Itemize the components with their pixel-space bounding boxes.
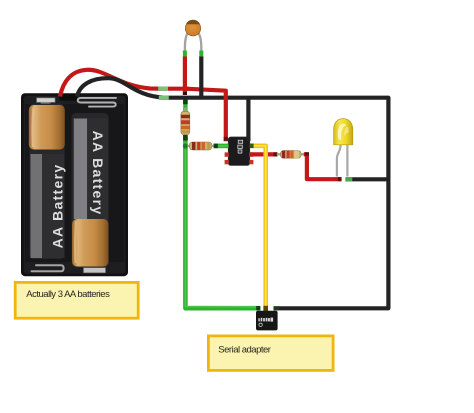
LED D1 highlight <box>338 124 347 140</box>
node dark cap red at LED <box>338 177 342 181</box>
wire black from LED to right rail <box>346 177 388 181</box>
transistor U1 markings <box>238 140 243 153</box>
wire yellow from transistor to serial adapter <box>250 146 266 311</box>
LED D1 right leg <box>346 145 348 177</box>
battery holder spring bottom left <box>32 265 64 271</box>
resistor R2 horizontal left lead <box>188 145 190 147</box>
wire red elbow to LED <box>304 154 342 179</box>
node dark cap red right <box>274 152 278 156</box>
node dark cap red leg end <box>183 91 187 95</box>
svg-text:Actually 3 AA batteries: Actually 3 AA batteries <box>26 289 110 300</box>
serial adapter U2 label <box>258 318 273 322</box>
transistor U1 pin right upper <box>249 152 253 156</box>
transistor U1 pin left lower <box>225 160 229 164</box>
node dark cap red wire at transistor <box>224 137 228 141</box>
battery B2 (right, + down) <box>72 113 109 268</box>
wire green segment to transistor <box>214 144 229 149</box>
resistor R3 right lead <box>301 153 305 155</box>
wire green long vertical and bottom <box>185 136 259 309</box>
note N1 "Actually 3 AA batteries" <box>15 282 138 318</box>
transistor U1 body <box>228 137 249 165</box>
wire black battery curve <box>77 78 164 98</box>
wire red horizontal segment A <box>159 87 189 91</box>
serial adapter U2 body <box>256 311 278 331</box>
serial adapter U2 symbol <box>259 323 262 326</box>
svg-text:AA Battery: AA Battery <box>50 164 66 249</box>
resistor R3 body <box>281 151 302 159</box>
battery holder BT1 box <box>21 93 128 276</box>
wire red from transistor to resistor R3 <box>250 152 277 156</box>
transistor U1 pin left upper <box>225 152 229 156</box>
battery holder contact plate bottom right <box>88 263 97 268</box>
battery B1 (left, + up) <box>29 104 66 260</box>
battery holder contact plate top left <box>37 98 55 102</box>
wire red phototransistor left leg <box>183 57 187 92</box>
node dark cap green top <box>183 135 188 141</box>
node green tip right leg <box>199 51 203 58</box>
node dark cap green at serial adapter <box>256 306 260 310</box>
node dark cap green segment left <box>214 144 218 149</box>
phototransistor Q2 left leg <box>185 33 188 53</box>
node dark cap yellow left <box>250 144 254 149</box>
phototransistor Q2 dome <box>185 21 200 36</box>
resistor R2 right lead <box>212 145 215 147</box>
node dark green tint black wire end <box>274 306 279 310</box>
svg-text:Serial adapter: Serial adapter <box>218 344 270 355</box>
node green junction blob <box>183 143 188 148</box>
svg-text:AA Battery: AA Battery <box>90 131 106 216</box>
note N2 "Serial adapter" <box>208 336 333 371</box>
LED D1 body <box>334 119 353 145</box>
resistor R2 body <box>189 142 211 150</box>
wire red battery curve <box>60 70 161 97</box>
wire green stub above resistor R1 <box>183 99 187 112</box>
node green cap on black wire <box>159 96 169 100</box>
transistor U1 pin right lower <box>249 160 253 164</box>
node green cap on red wire <box>158 87 168 91</box>
battery holder spring top right <box>78 98 116 107</box>
phototransistor Q2 right leg <box>198 33 201 53</box>
wire black phototransistor right leg <box>199 57 203 100</box>
node green cap black LED wire <box>345 177 352 181</box>
wire red segment B to transistor <box>186 89 226 141</box>
resistor R3 left lead <box>277 153 281 155</box>
LED D1 left leg <box>337 145 341 177</box>
wire black vertical to transistor <box>246 98 250 141</box>
node green tip left leg <box>183 51 187 58</box>
node dark cap green stub <box>183 99 188 104</box>
node dark cap red elbow top <box>305 152 309 155</box>
resistor R1 vertical body <box>181 108 190 139</box>
battery holder wire clamp tab <box>60 94 78 101</box>
wire black main run top right bottom <box>159 98 388 309</box>
node dark cap yellow bottom <box>263 306 268 311</box>
